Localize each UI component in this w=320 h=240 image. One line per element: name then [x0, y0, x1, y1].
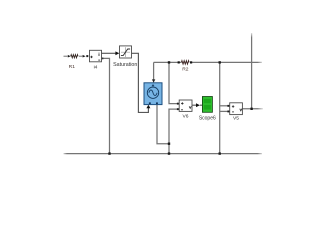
wire vertical to top right: [251, 33, 253, 109]
svg-text:V6: V6: [183, 114, 189, 120]
svg-text:R1: R1: [69, 64, 76, 70]
wire V6 minus down to bottom bus: [169, 109, 179, 154]
current measurement i4: [90, 50, 104, 62]
node junction bottom bus V5: [219, 152, 221, 154]
wire V6 plus tap from top bus: [169, 62, 179, 103]
scope Scope6: [202, 97, 212, 113]
wire signal i4 to saturation: [102, 52, 116, 54]
wire V5 minus stub: [220, 110, 230, 112]
wire from top bus down into source plus: [153, 62, 155, 80]
svg-text:Scope6: Scope6: [199, 115, 216, 121]
svg-text:Saturation: Saturation: [113, 62, 137, 68]
wire top bus: [154, 61, 262, 63]
svg-text:R2: R2: [182, 67, 189, 73]
resistor R1: [64, 55, 89, 58]
node junction staircase joins V6 minus: [168, 143, 170, 145]
node junction top bus V5 tap: [219, 61, 221, 63]
wire V6 output to scope: [192, 104, 202, 106]
resistor R2: [178, 61, 193, 64]
wire signal saturation to source s input: [132, 53, 149, 112]
wire source minus staircase: [157, 105, 169, 144]
svg-text:V5: V5: [233, 116, 239, 122]
wire V5 output: [242, 108, 263, 110]
node junction bottom bus i4: [108, 152, 110, 154]
wire bottom bus: [64, 153, 263, 155]
voltage measurement V5: [227, 103, 242, 115]
voltage measurement V6: [177, 100, 192, 111]
node junction top bus V6 tap: [168, 61, 170, 63]
svg-text:i4: i4: [94, 65, 98, 71]
saturation block: [120, 46, 132, 58]
ac voltage source: [144, 83, 162, 105]
wire V5 vertical bus tap: [219, 62, 221, 153]
node junction V5 output feedback: [250, 108, 252, 110]
node junction bottom bus V6: [168, 152, 170, 154]
wire V5 plus stub: [220, 105, 230, 107]
wire end fades: [62, 151, 68, 157]
wire vertical from i4 minus to bottom bus: [102, 58, 109, 153]
